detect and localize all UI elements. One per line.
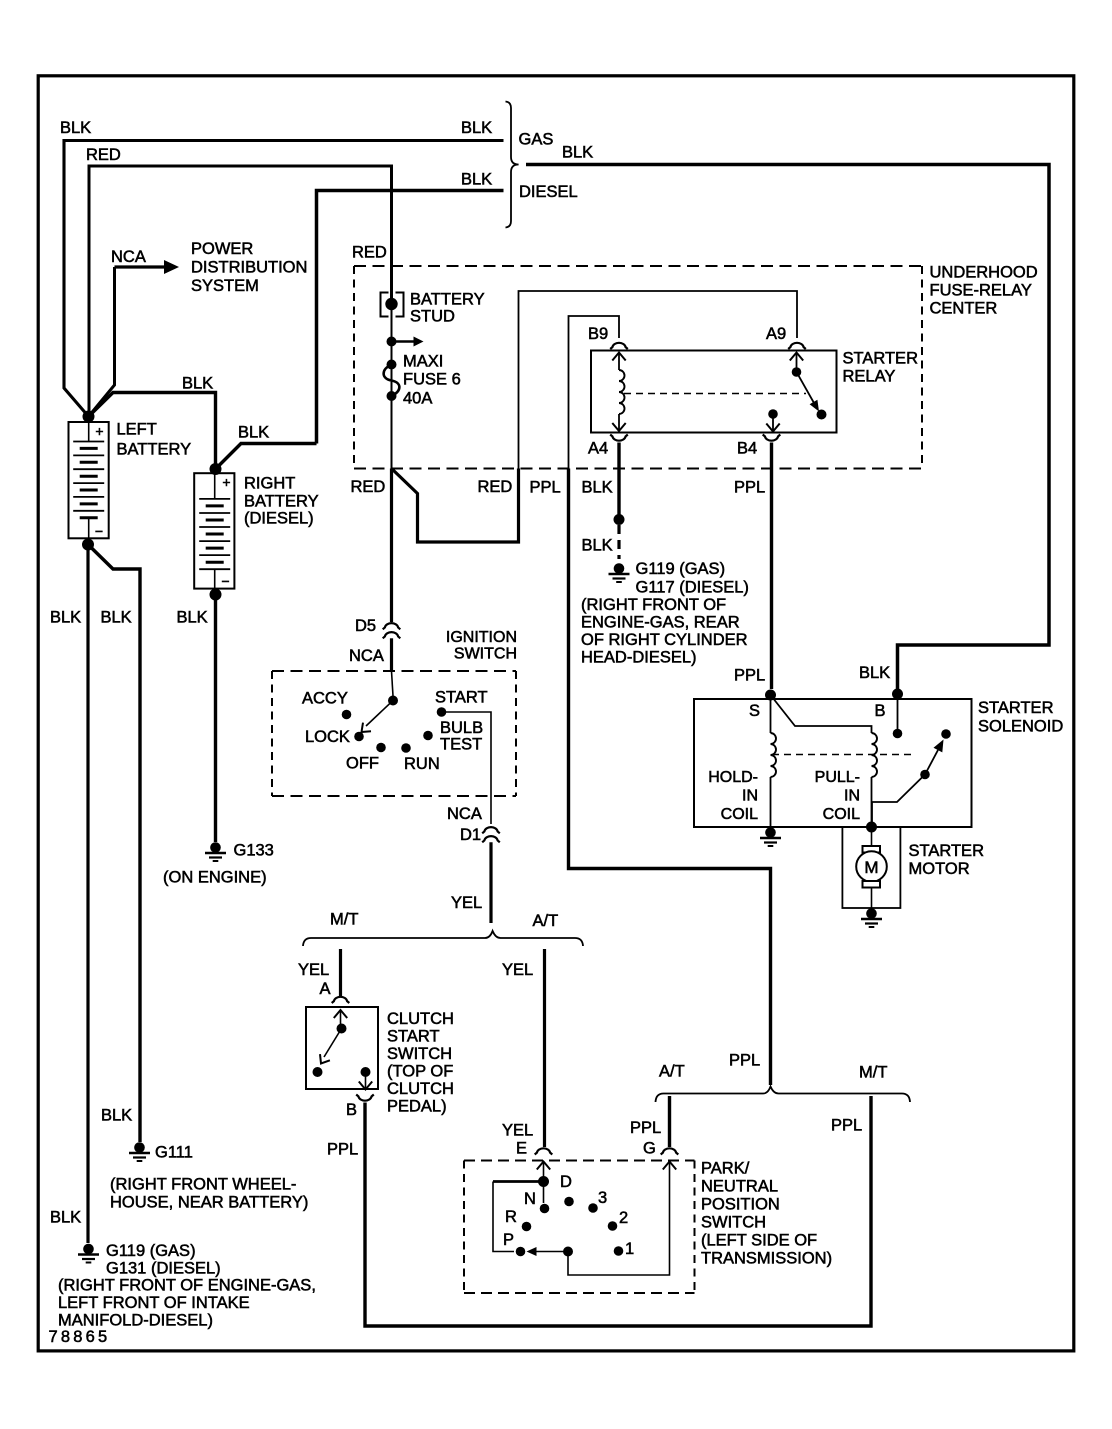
P/N G entry arrow [663, 1162, 676, 1170]
clutch B exit arrow [365, 1072, 367, 1089]
starter motor wire bottom [871, 888, 873, 909]
connector D1 [482, 827, 500, 833]
wire PPL relay B9 to park/neutral splice [569, 316, 620, 469]
svg-text:RED: RED [352, 244, 387, 262]
solenoid plunger pivot [920, 770, 930, 780]
wire BLK left battery negative to G111 [88, 545, 140, 1143]
relay switch common A9 side [796, 353, 798, 371]
svg-text:G119 (GAS): G119 (GAS) [106, 1242, 196, 1260]
svg-text:A/T: A/T [533, 912, 559, 930]
starter motor brush top [863, 846, 881, 853]
svg-text:M: M [864, 858, 878, 877]
svg-text:GAS: GAS [519, 131, 554, 149]
connector A clutch [332, 997, 350, 1003]
junction dot A4 ground wire [614, 514, 625, 525]
svg-text:POWER: POWER [191, 240, 253, 258]
svg-text:M/T: M/T [859, 1064, 887, 1082]
svg-text:CLUTCH: CLUTCH [387, 1080, 454, 1098]
arrowhead maxi fuse tap [414, 337, 424, 347]
svg-text:B: B [875, 702, 886, 720]
P/N wiper path [493, 1180, 544, 1183]
P/N contact D [564, 1197, 574, 1207]
starter motor ground [866, 908, 877, 919]
svg-text:TRANSMISSION): TRANSMISSION) [701, 1250, 832, 1268]
svg-text:OFF: OFF [346, 755, 379, 773]
svg-text:SYSTEM: SYSTEM [191, 277, 259, 295]
svg-text:(LEFT SIDE OF: (LEFT SIDE OF [701, 1232, 817, 1250]
svg-text:DIESEL: DIESEL [519, 183, 578, 201]
ignition feed wire to rotor [392, 671, 394, 696]
starter relay box [591, 351, 837, 433]
svg-text:RIGHT: RIGHT [244, 475, 295, 493]
svg-text:G111: G111 [155, 1144, 193, 1162]
svg-text:BLK: BLK [177, 609, 208, 627]
svg-text:FUSE-RELAY: FUSE-RELAY [930, 282, 1032, 300]
svg-text:IN: IN [742, 788, 758, 805]
relay B4 contact [768, 409, 778, 419]
solenoid S to pull-in coil [771, 695, 872, 733]
ground G111 [134, 1142, 145, 1153]
left battery [69, 422, 109, 538]
svg-text:BLK: BLK [582, 479, 613, 497]
svg-text:M/T: M/T [330, 911, 358, 929]
svg-text:RED: RED [351, 478, 386, 496]
connector E [535, 1148, 553, 1154]
P/N contact N [540, 1204, 550, 1214]
wire BLK right battery positive to diesel wire [216, 444, 317, 470]
svg-text:BLK: BLK [60, 119, 91, 137]
svg-text:78865: 78865 [49, 1328, 111, 1346]
wire YEL to park/neutral E [543, 949, 546, 1147]
svg-text:PARK/: PARK/ [701, 1160, 750, 1178]
ignition contact START [437, 707, 447, 717]
svg-text:PPL: PPL [729, 1052, 760, 1070]
wire BLK diesel (from right battery splice up and right) [317, 191, 504, 444]
svg-text:HOLD-: HOLD- [708, 769, 758, 786]
wire RED maxi fuse branch to relay A9 [392, 469, 519, 543]
svg-text:B9: B9 [588, 325, 608, 343]
svg-text:UNDERHOOD: UNDERHOOD [930, 264, 1038, 282]
svg-text:PPL: PPL [327, 1141, 358, 1159]
svg-text:CLUTCH: CLUTCH [387, 1010, 454, 1028]
ground G119/G117 [614, 563, 625, 574]
park/neutral switch dashed box [464, 1160, 695, 1162]
svg-text:FUSE 6: FUSE 6 [403, 371, 461, 389]
connector B clutch [356, 1095, 374, 1101]
connector A9 [788, 343, 806, 349]
svg-text:P: P [503, 1231, 514, 1249]
connector G [661, 1148, 679, 1154]
wire BLK merged to starter solenoid B terminal [526, 165, 1049, 690]
svg-text:2: 2 [619, 1209, 628, 1227]
brace A/T M/T park-neutral [656, 1087, 911, 1103]
svg-text:(RIGHT FRONT WHEEL-: (RIGHT FRONT WHEEL- [110, 1176, 296, 1194]
wire BLK left battery to right battery [89, 393, 216, 465]
starter motor brush bottom [863, 881, 881, 888]
ignition contact ACCY [342, 710, 352, 720]
arrowhead NCA power distribution [164, 260, 179, 274]
svg-text:A: A [320, 980, 331, 998]
svg-text:MANIFOLD-DIESEL): MANIFOLD-DIESEL) [58, 1312, 213, 1330]
P/N wiper junction dot [563, 1247, 573, 1257]
svg-text:D1: D1 [460, 826, 481, 844]
svg-text:HOUSE, NEAR BATTERY): HOUSE, NEAR BATTERY) [110, 1194, 308, 1212]
clutch movable contact dot [337, 1024, 347, 1034]
relay dashed actuator link [624, 393, 806, 395]
svg-text:SOLENOID: SOLENOID [978, 718, 1063, 736]
svg-text:BLK: BLK [461, 119, 492, 137]
clutch A entry arrow [340, 1011, 342, 1024]
wire YEL to clutch switch A [339, 949, 342, 996]
svg-text:NCA: NCA [349, 647, 384, 665]
junction dot right battery negative [210, 589, 222, 601]
junction dot solenoid S [765, 690, 776, 701]
starter motor wire top [871, 827, 873, 846]
svg-text:PULL-: PULL- [815, 769, 860, 786]
P/N common to N contact [543, 1182, 545, 1204]
svg-text:YEL: YEL [298, 961, 329, 979]
svg-text:N: N [524, 1190, 536, 1208]
clutch lower-left contact [313, 1067, 323, 1077]
starter motor circle [856, 851, 887, 882]
P/N wiper arrowhead at P [527, 1247, 537, 1256]
svg-text:BLK: BLK [582, 537, 613, 555]
battery stud dot [385, 298, 397, 310]
svg-text:RUN: RUN [404, 755, 440, 773]
wire RED maxi fuse to ignition switch D5 [390, 469, 393, 623]
svg-text:NCA: NCA [111, 248, 146, 266]
svg-text:A9: A9 [766, 325, 786, 343]
svg-text:RED: RED [478, 478, 513, 496]
svg-text:+: + [222, 474, 230, 490]
wire BLK dashed to G119/G117 [617, 525, 620, 559]
svg-text:STARTER: STARTER [909, 842, 985, 860]
svg-text:G133: G133 [234, 842, 274, 860]
connector B9 [610, 343, 628, 349]
solenoid right contact [941, 729, 951, 739]
svg-text:POSITION: POSITION [701, 1196, 780, 1214]
wire RED from left battery positive to battery stud [89, 166, 392, 417]
svg-text:CENTER: CENTER [930, 300, 998, 318]
svg-text:OF RIGHT CYLINDER: OF RIGHT CYLINDER [581, 631, 748, 649]
svg-text:B: B [346, 1101, 357, 1119]
junction dot left battery negative [82, 539, 94, 551]
svg-text:STUD: STUD [410, 308, 455, 326]
svg-text:PEDAL): PEDAL) [387, 1098, 447, 1116]
svg-text:BLK: BLK [238, 424, 269, 442]
solenoid pull-in coil [872, 733, 878, 777]
svg-text:PPL: PPL [734, 667, 765, 685]
clutch B contact [361, 1067, 371, 1077]
connector D5 [383, 623, 401, 629]
svg-text:G131 (DIESEL): G131 (DIESEL) [106, 1260, 221, 1278]
svg-text:S: S [749, 702, 760, 720]
svg-text:(RIGHT FRONT OF ENGINE-GAS,: (RIGHT FRONT OF ENGINE-GAS, [58, 1277, 316, 1295]
P/N common junction dot [538, 1176, 549, 1187]
wire BLK relay A4 to ground [617, 443, 620, 516]
svg-text:G: G [643, 1140, 656, 1158]
svg-text:HEAD-DIESEL): HEAD-DIESEL) [581, 649, 697, 667]
wire PPL to park/neutral G [668, 1096, 671, 1147]
svg-text:(ON ENGINE): (ON ENGINE) [163, 869, 267, 887]
svg-text:E: E [516, 1140, 527, 1158]
solenoid hold-in coil [770, 699, 772, 733]
svg-text:B4: B4 [737, 440, 757, 458]
connector B4 [763, 435, 781, 441]
svg-text:R: R [505, 1208, 517, 1226]
svg-text:+: + [95, 423, 103, 439]
svg-text:MOTOR: MOTOR [909, 860, 970, 878]
wire NCA to power distribution system [89, 267, 115, 417]
wire BLK left battery negative to G119/G131 [86, 545, 89, 1244]
svg-text:PPL: PPL [831, 1117, 862, 1135]
starter solenoid box [694, 699, 972, 827]
svg-text:DISTRIBUTION: DISTRIBUTION [191, 259, 307, 277]
junction dot solenoid M output [866, 822, 877, 833]
svg-text:TEST: TEST [440, 736, 482, 754]
svg-text:(DIESEL): (DIESEL) [244, 510, 314, 528]
ignition rotor pivot dot [388, 696, 398, 706]
solenoid dashed actuator link [772, 754, 916, 756]
svg-text:SWITCH: SWITCH [701, 1214, 766, 1232]
relay switch movable contact [797, 372, 815, 403]
svg-text:LEFT FRONT OF INTAKE: LEFT FRONT OF INTAKE [58, 1294, 250, 1312]
ignition contact RUN [401, 743, 411, 753]
starter motor frame [842, 827, 900, 908]
brace GAS/DIESEL splice [506, 102, 519, 228]
solenoid hold-in ground [765, 827, 776, 838]
P/N contact 2 [608, 1221, 618, 1231]
junction dot left battery positive [83, 411, 95, 423]
svg-text:PPL: PPL [734, 479, 765, 497]
ignition switch dashed box [272, 670, 516, 672]
connector A4 [610, 435, 628, 441]
junction dot right battery positive [210, 463, 222, 475]
svg-text:G119 (GAS): G119 (GAS) [636, 560, 726, 578]
svg-text:BATTERY: BATTERY [410, 291, 485, 309]
svg-text:NEUTRAL: NEUTRAL [701, 1178, 778, 1196]
svg-text:STARTER: STARTER [843, 350, 919, 368]
svg-text:PPL: PPL [630, 1119, 661, 1137]
svg-text:LOCK: LOCK [305, 728, 350, 746]
svg-text:LEFT: LEFT [117, 421, 157, 439]
solenoid plunger link [872, 775, 925, 823]
wire YEL D1 to transmission splice [489, 842, 492, 923]
clutch switch arm [324, 1029, 342, 1058]
svg-text:D: D [560, 1173, 572, 1191]
svg-text:COIL: COIL [721, 806, 758, 823]
svg-text:BATTERY: BATTERY [117, 441, 192, 459]
svg-text:3: 3 [598, 1189, 607, 1207]
svg-text:ACCY: ACCY [302, 690, 348, 708]
clutch start switch box [306, 1007, 378, 1089]
svg-text:BLK: BLK [50, 1209, 81, 1227]
svg-text:G117 (DIESEL): G117 (DIESEL) [636, 579, 749, 597]
svg-text:SWITCH: SWITCH [387, 1045, 452, 1063]
ignition contact OFF [376, 743, 386, 753]
ignition contact BULB TEST [423, 731, 433, 741]
battery stud brackets [381, 293, 389, 317]
svg-text:STARTER: STARTER [978, 699, 1054, 717]
svg-text:RELAY: RELAY [843, 368, 896, 386]
svg-text:D5: D5 [355, 617, 376, 635]
svg-text:(TOP OF: (TOP OF [387, 1063, 453, 1081]
svg-text:−: − [95, 523, 103, 539]
svg-text:BLK: BLK [50, 609, 81, 627]
solenoid plunger arrow [925, 750, 938, 775]
P/N contact R [522, 1222, 532, 1232]
wire RED D5 to ignition switch [390, 638, 393, 671]
svg-text:BATTERY: BATTERY [244, 493, 319, 511]
svg-text:BULB: BULB [440, 719, 483, 737]
wire BLK right battery negative to G133 [214, 595, 217, 843]
wire RED inside fuse center (battery stud to fuse) [391, 299, 393, 469]
svg-text:YEL: YEL [502, 1122, 533, 1140]
svg-text:1: 1 [625, 1240, 634, 1258]
svg-text:BLK: BLK [101, 609, 132, 627]
wire PPL clutch B to M/T splice [365, 1096, 871, 1326]
svg-text:RED: RED [86, 146, 121, 164]
underhood fuse-relay center dashed box [354, 265, 922, 267]
svg-text:MAXI: MAXI [403, 353, 443, 371]
svg-text:COIL: COIL [823, 806, 860, 823]
svg-text:YEL: YEL [502, 961, 533, 979]
svg-text:BLK: BLK [461, 171, 492, 189]
svg-text:BLK: BLK [562, 144, 593, 162]
ground G119/G131 [83, 1244, 94, 1255]
wire BLK from left battery positive to GAS splice (horizontal top) [64, 141, 504, 417]
ignition rotor arm [366, 701, 393, 727]
svg-text:A4: A4 [588, 440, 608, 458]
ignition contact LOCK [354, 732, 364, 742]
svg-text:−: − [221, 573, 229, 589]
svg-text:ENGINE-GAS, REAR: ENGINE-GAS, REAR [581, 614, 740, 632]
P/N contact 1 [614, 1246, 624, 1256]
P/N E entry arrow [543, 1162, 545, 1178]
maxi fuse 6 element [387, 360, 397, 370]
P/N G return path [568, 1163, 670, 1275]
svg-text:A/T: A/T [659, 1063, 685, 1081]
svg-text:YEL: YEL [451, 894, 482, 912]
svg-text:START: START [387, 1028, 440, 1046]
wire PPL relay B4 to solenoid S [770, 443, 773, 690]
solenoid B contact stub [897, 699, 899, 729]
junction dot solenoid B [892, 689, 903, 700]
svg-text:BLK: BLK [859, 664, 890, 682]
ground G133 [210, 842, 221, 853]
P/N contact P [516, 1247, 526, 1257]
svg-text:PPL: PPL [530, 479, 561, 497]
svg-text:40A: 40A [403, 390, 432, 408]
svg-text:START: START [435, 689, 488, 707]
junction dot above maxi fuse with arrow [387, 337, 397, 347]
relay coil [618, 353, 620, 370]
svg-text:IN: IN [844, 788, 860, 805]
svg-text:BLK: BLK [101, 1107, 132, 1125]
P/N contact 3 [588, 1203, 598, 1213]
svg-text:NCA: NCA [447, 805, 482, 823]
wire START contact to D1 [442, 712, 492, 824]
svg-text:BLK: BLK [182, 375, 213, 393]
svg-text:IGNITION: IGNITION [446, 629, 517, 646]
svg-text:SWITCH: SWITCH [454, 646, 517, 663]
brace M/T A/T ignition [303, 931, 583, 946]
svg-text:(RIGHT FRONT OF: (RIGHT FRONT OF [581, 596, 726, 614]
right battery [194, 473, 234, 588]
